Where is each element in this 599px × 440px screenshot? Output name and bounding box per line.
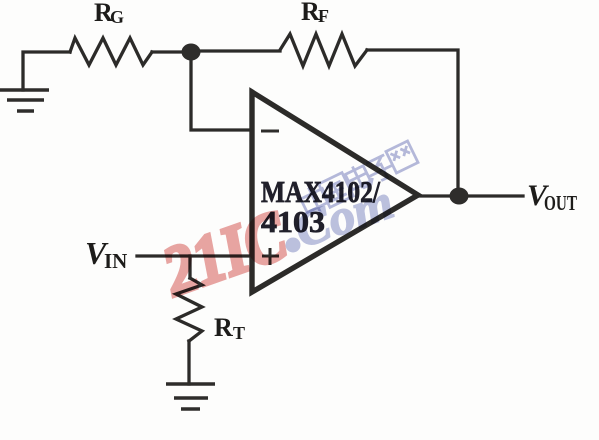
char guo: [319, 173, 354, 208]
wire: RF to output node (top right): [367, 50, 458, 196]
wire: op-amp output to node: [418, 194, 523, 197]
label MAX4102/4103: [261, 174, 380, 239]
resistor RG: [70, 38, 152, 65]
wire: node A down to inverting input: [191, 52, 252, 130]
label VIN: [85, 235, 127, 273]
node OUT (junction dot): [450, 188, 469, 205]
resistor RF: [280, 34, 367, 66]
svg-text:IN: IN: [104, 249, 127, 273]
svg-text:R: R: [214, 313, 233, 342]
char zhong: [298, 182, 333, 219]
ground (below RT): [166, 384, 215, 409]
label RF: [301, 0, 329, 26]
svg-text:21IC: 21IC: [153, 197, 297, 312]
wire: ground to RG: [23, 52, 70, 90]
watermark chinese characters (blue outline): [298, 141, 418, 220]
op-amp U1 MAX4102/4103: [252, 92, 418, 292]
svg-text:F: F: [318, 6, 329, 26]
label RT: [214, 313, 245, 343]
pin label plus (non-inverting input): [262, 248, 279, 265]
label VOUT: [527, 179, 577, 215]
svg-text:OUT: OUT: [544, 191, 577, 215]
char zi: [363, 153, 396, 184]
pin label minus (inverting input): [261, 130, 279, 133]
char wang: [386, 141, 418, 173]
wire: RG to node A: [152, 50, 191, 53]
svg-text:T: T: [233, 323, 245, 343]
resistor RT: [176, 278, 202, 341]
node A (junction dot): [182, 44, 201, 61]
wire: node A to RF: [191, 49, 280, 52]
svg-text:G: G: [110, 7, 124, 27]
ground (top left): [0, 90, 49, 111]
watermark 21IC (red): [153, 197, 297, 312]
wire: VIN to non-inverting input: [137, 254, 252, 257]
wire: RT stub from VIN wire: [188, 256, 191, 278]
label RG: [94, 0, 124, 27]
wire: RT to ground: [187, 341, 190, 384]
char dian: [343, 161, 374, 193]
watermark .Com (blue): [286, 173, 401, 259]
